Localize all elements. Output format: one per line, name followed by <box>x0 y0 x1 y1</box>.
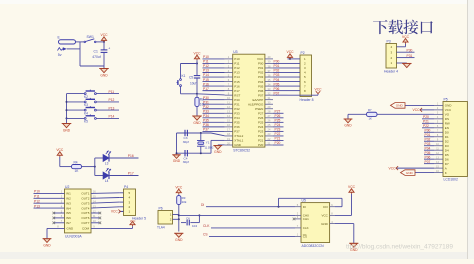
svg-text:RW: RW <box>445 122 450 126</box>
svg-text:P23: P23 <box>275 128 281 132</box>
svg-text:P25: P25 <box>258 121 264 125</box>
svg-text:K4: K4 <box>84 111 88 115</box>
svg-text:SW1: SW1 <box>87 35 94 39</box>
svg-text:P22: P22 <box>423 124 429 128</box>
net label CS wire <box>203 233 295 237</box>
svg-text:P32: P32 <box>203 105 209 109</box>
svg-text:GND: GND <box>344 124 352 128</box>
svg-text:LCD1602: LCD1602 <box>444 178 458 182</box>
wire P07/EA to VCC port <box>288 88 323 96</box>
svg-text:P36: P36 <box>234 125 240 129</box>
svg-text:P30: P30 <box>234 98 240 102</box>
svg-text:470uf: 470uf <box>92 55 101 59</box>
ground GND (MCU pin20) <box>213 145 224 154</box>
resistor R3 10k <box>177 194 187 204</box>
svg-text:P04: P04 <box>274 78 280 82</box>
svg-text:GND: GND <box>100 74 108 78</box>
svg-text:L4: L4 <box>105 179 109 183</box>
svg-text:P01: P01 <box>274 64 280 68</box>
svg-text:P33: P33 <box>234 111 240 115</box>
net label P06 (LCD D6) <box>424 155 434 159</box>
svg-text:P03: P03 <box>425 142 431 146</box>
svg-text:P22: P22 <box>275 132 281 136</box>
svg-text:OUT4: OUT4 <box>81 206 89 210</box>
svg-text:P02: P02 <box>258 71 264 75</box>
svg-text:P11: P11 <box>234 62 239 66</box>
svg-text:GND: GND <box>396 104 404 108</box>
svg-text:CS: CS <box>303 235 307 239</box>
x-mark CH1 <box>293 218 296 221</box>
svg-text:1K: 1K <box>369 117 373 121</box>
svg-text:XTAL1: XTAL1 <box>234 139 243 143</box>
svg-text:P20: P20 <box>423 115 429 119</box>
net label CLK wire <box>203 224 295 228</box>
svg-text:P30: P30 <box>203 96 209 100</box>
net label P12 (U2 IN3) <box>34 199 65 203</box>
svg-text:P15: P15 <box>234 80 240 84</box>
watermark text <box>346 244 453 251</box>
svg-text:VCC: VCC <box>257 57 264 61</box>
svg-text:D7: D7 <box>445 162 449 166</box>
svg-text:VCC: VCC <box>111 210 119 214</box>
svg-text:D5: D5 <box>445 153 449 157</box>
wire DI-DO loop <box>279 198 343 206</box>
svg-text:P21: P21 <box>258 139 264 143</box>
svg-text:D4: D4 <box>445 148 449 152</box>
wire VCC to R4 <box>60 157 72 167</box>
svg-text:OUT1: OUT1 <box>81 192 89 196</box>
svg-text:IN5: IN5 <box>66 211 71 215</box>
svg-text:XTAL2: XTAL2 <box>234 134 243 138</box>
battery E 5v <box>58 36 81 57</box>
svg-text:P4: P4 <box>124 185 128 189</box>
svg-text:P17: P17 <box>234 89 240 93</box>
title text 下载接口 <box>373 20 433 35</box>
svg-text:P34: P34 <box>234 116 240 120</box>
svg-text:P13: P13 <box>234 71 240 75</box>
svg-text:30pf: 30pf <box>183 140 189 144</box>
net label P01 (LCD D1) <box>424 133 434 137</box>
svg-text:104: 104 <box>192 224 197 228</box>
svg-text:P10: P10 <box>34 190 40 194</box>
node RST <box>196 93 198 95</box>
svg-text:P37: P37 <box>234 130 240 134</box>
svg-text:OUT2: OUT2 <box>81 197 89 201</box>
svg-text:P00: P00 <box>258 62 264 66</box>
svg-text:GND: GND <box>406 171 414 175</box>
svg-text:IN6: IN6 <box>66 216 71 220</box>
net label P02 (LCD D2) <box>424 137 434 141</box>
svg-text:P16: P16 <box>234 84 240 88</box>
svg-text:P26: P26 <box>275 114 281 118</box>
svg-text:D1: D1 <box>445 135 449 139</box>
ground GND (power) <box>99 66 109 78</box>
svg-text:RST: RST <box>234 93 240 97</box>
svg-text:L3: L3 <box>105 162 109 166</box>
svg-text:RS: RS <box>445 117 449 121</box>
svg-text:P17: P17 <box>128 172 134 176</box>
wire U2 OUT5-OUT7 stubs <box>91 212 101 224</box>
svg-text:P16: P16 <box>128 154 134 158</box>
connector P3 Header 4 <box>384 40 403 74</box>
wire sensor node <box>178 205 180 232</box>
svg-text:P11: P11 <box>109 90 115 94</box>
svg-text:VCC: VCC <box>56 148 64 152</box>
ground GND (U2 pin8) <box>43 228 65 247</box>
net label P03 (LCD D3) <box>424 142 434 146</box>
svg-text:ADC0832CCN: ADC0832CCN <box>302 244 325 248</box>
power VCC (P3 pin4) <box>402 35 410 47</box>
capacitor C6 104 <box>181 214 200 227</box>
LED L3 <box>95 151 139 166</box>
svg-text:IN4: IN4 <box>66 206 71 210</box>
svg-text:P02: P02 <box>425 137 431 141</box>
svg-text:VCC: VCC <box>445 108 452 112</box>
node VCC junction <box>103 41 105 43</box>
net labels P27-P20 (MCU right) <box>273 109 284 145</box>
capacitor C5 10uf <box>189 64 200 94</box>
svg-text:TLA4: TLA4 <box>157 225 165 229</box>
connector P5 LCD1602 <box>434 98 467 182</box>
svg-text:GND: GND <box>234 143 242 147</box>
svg-text:P21: P21 <box>275 137 281 141</box>
svg-text:P05: P05 <box>274 82 280 86</box>
svg-text:GND: GND <box>175 238 183 242</box>
svg-text:C6: C6 <box>186 217 190 221</box>
svg-text:P31: P31 <box>234 102 240 106</box>
wire button bus <box>66 94 68 120</box>
power VCC (P2 pin1) <box>287 50 295 60</box>
svg-text:IN7: IN7 <box>66 221 71 225</box>
svg-text:GND: GND <box>445 104 453 108</box>
svg-text:P11: P11 <box>203 60 209 64</box>
capacitor C4 30pf <box>183 150 189 164</box>
svg-text:ULN2003A: ULN2003A <box>65 234 82 238</box>
svg-text:P3: P3 <box>387 40 391 44</box>
pushbutton K2 <box>67 90 120 99</box>
svg-text:D3: D3 <box>445 144 449 148</box>
net label P11 (U2 IN2) <box>34 195 65 199</box>
svg-text:DI: DI <box>201 203 204 207</box>
svg-text:C5: C5 <box>189 76 193 80</box>
svg-text:P00: P00 <box>425 128 431 132</box>
net label DI wire <box>201 203 295 208</box>
svg-text:P07: P07 <box>274 91 280 95</box>
svg-text:U3: U3 <box>233 50 237 54</box>
ground GND (LCD pin1) <box>391 103 435 109</box>
svg-text:OUT3: OUT3 <box>81 201 89 205</box>
IC U5 ADC0832 <box>295 199 335 248</box>
connector P4 Header 5 <box>119 185 146 221</box>
wire U2 OUT1-OUT4 to P4 <box>91 193 119 208</box>
svg-text:P31: P31 <box>203 100 209 104</box>
net labels P00-P07 (MCU right) <box>273 60 288 96</box>
power VCC (U2 COM pin9) <box>91 219 135 228</box>
svg-text:VCC: VCC <box>402 35 410 39</box>
svg-text:P22: P22 <box>258 134 264 138</box>
pushbutton K5 <box>67 114 120 123</box>
svg-text:VCC: VCC <box>413 108 421 112</box>
svg-text:VCC: VCC <box>101 33 109 37</box>
svg-text:P21: P21 <box>423 120 429 124</box>
power VCC (ADC) <box>335 185 356 215</box>
svg-text:OUT7: OUT7 <box>81 221 89 225</box>
pushbutton K1 (reset) <box>177 74 186 86</box>
svg-text:ttps://blog.csdn.net/weixin_47: ttps://blog.csdn.net/weixin_47927189 <box>346 244 453 251</box>
net label P31 (P3 pin2) <box>403 54 415 58</box>
svg-text:P03: P03 <box>274 73 280 77</box>
wire XTAL1 riser <box>201 140 225 153</box>
svg-text:GND: GND <box>193 121 201 125</box>
ground GND (P3 pin1) <box>402 63 412 68</box>
svg-text:P12: P12 <box>34 199 40 203</box>
svg-text:P05: P05 <box>258 84 264 88</box>
svg-text:P14: P14 <box>234 75 240 79</box>
svg-text:GND: GND <box>214 150 222 154</box>
svg-text:10uf: 10uf <box>190 81 196 85</box>
svg-text:P6: P6 <box>159 207 163 211</box>
svg-text:P07: P07 <box>425 160 431 164</box>
svg-text:Header 8: Header 8 <box>300 98 314 102</box>
svg-text:GND: GND <box>321 222 329 226</box>
wire R4 to LED split <box>82 158 96 176</box>
svg-text:P35: P35 <box>203 119 209 123</box>
svg-text:P37: P37 <box>203 128 209 132</box>
svg-text:STC89C52: STC89C52 <box>233 148 250 152</box>
svg-text:P30: P30 <box>407 48 413 52</box>
svg-text:P33: P33 <box>203 109 209 113</box>
wire XTAL2 rail <box>177 133 225 136</box>
power VCC (reset) <box>194 52 202 61</box>
svg-text:P27: P27 <box>275 109 281 113</box>
svg-text:P10: P10 <box>234 57 240 61</box>
svg-text:VCC: VCC <box>315 88 323 92</box>
net labels P30-P37 (MCU left) <box>203 96 225 132</box>
svg-text:IN2: IN2 <box>66 197 71 201</box>
ground GND (ADC) <box>335 224 358 252</box>
svg-text:VCC: VCC <box>175 185 183 189</box>
svg-text:P07: P07 <box>258 93 264 97</box>
ground GND (reset R2) <box>192 107 202 126</box>
svg-text:P24: P24 <box>258 125 264 129</box>
svg-text:D2: D2 <box>445 139 449 143</box>
wire crystal left rail <box>176 133 201 154</box>
connector P6 sensor <box>157 207 179 230</box>
resistor R7 1K (VO) <box>348 108 434 121</box>
wire battery to switch <box>76 41 85 43</box>
svg-text:P12: P12 <box>109 98 115 102</box>
power VCC (P4 pin1) <box>111 210 124 214</box>
svg-text:K: K <box>445 171 447 175</box>
svg-text:Y1: Y1 <box>206 140 210 144</box>
svg-text:11.0592: 11.0592 <box>205 146 214 149</box>
svg-text:K3: K3 <box>84 103 88 107</box>
svg-text:CH1: CH1 <box>303 217 309 221</box>
svg-text:P10: P10 <box>203 55 209 59</box>
capacitor C3 30pf <box>183 130 189 144</box>
pushbutton K4 <box>67 106 120 115</box>
svg-text:P17: P17 <box>203 87 209 91</box>
power VCC (LCD A) <box>389 166 434 170</box>
svg-text:K5: K5 <box>84 120 88 124</box>
svg-text:OUT6: OUT6 <box>81 216 89 220</box>
wire RST to MCU <box>197 94 225 95</box>
svg-text:P25: P25 <box>275 119 281 123</box>
svg-text:Header 4: Header 4 <box>384 69 398 73</box>
svg-text:P01: P01 <box>425 133 431 137</box>
ground GND (LCD K) <box>401 170 435 176</box>
wire reset loop <box>181 60 199 94</box>
svg-text:DI: DI <box>303 205 306 209</box>
ground GND (button bus) <box>62 118 72 132</box>
svg-text:VO: VO <box>445 113 450 117</box>
svg-text:P24: P24 <box>275 123 281 127</box>
resistor R2 10k <box>195 94 205 107</box>
net label P10 (U2 IN1) <box>34 190 65 194</box>
svg-text:P04: P04 <box>258 80 264 84</box>
svg-text:P11: P11 <box>34 195 40 199</box>
svg-text:P13: P13 <box>34 204 40 208</box>
svg-text:P06: P06 <box>258 89 264 93</box>
svg-text:P13: P13 <box>109 106 115 110</box>
wire U2 IN5-IN7 stubs <box>53 212 65 224</box>
svg-text:P12: P12 <box>203 64 209 68</box>
power VCC (LCD pin2) <box>413 108 434 112</box>
LED L4 <box>95 168 139 183</box>
svg-text:P35: P35 <box>234 121 240 125</box>
svg-text:PSEN: PSEN <box>255 107 263 111</box>
svg-text:A: A <box>445 166 447 170</box>
svg-text:10k: 10k <box>182 200 187 204</box>
svg-text:P06: P06 <box>274 87 280 91</box>
net label P07 (LCD D7) <box>424 160 434 164</box>
wire CH0 <box>179 214 295 216</box>
svg-text:30pf: 30pf <box>183 160 189 164</box>
net label P21 (LCD RW) <box>422 120 434 124</box>
svg-text:D6: D6 <box>445 157 449 161</box>
svg-text:D0: D0 <box>445 130 449 134</box>
svg-text:P14: P14 <box>203 73 209 77</box>
svg-text:GND: GND <box>63 129 71 133</box>
svg-text:P00: P00 <box>274 60 280 64</box>
svg-text:COM: COM <box>82 227 90 231</box>
svg-text:U2: U2 <box>65 185 69 189</box>
net label P30 (P3 pin3) <box>403 48 415 52</box>
svg-text:P2: P2 <box>301 51 305 55</box>
power VCC (LED) <box>56 148 64 157</box>
svg-text:P16: P16 <box>203 82 209 86</box>
capacitor C1 470uf <box>92 42 110 66</box>
svg-text:OUT5: OUT5 <box>81 211 89 215</box>
svg-text:ALE/PROG: ALE/PROG <box>248 102 264 106</box>
svg-text:+: + <box>108 46 110 50</box>
net label P05 (LCD D5) <box>424 151 434 155</box>
ground GND (LCD VO) <box>344 114 353 127</box>
svg-text:IN1: IN1 <box>66 192 71 196</box>
IC U2 ULN2003A <box>57 185 96 238</box>
svg-text:EN: EN <box>445 126 449 130</box>
svg-text:DO: DO <box>323 205 328 209</box>
net label P22 (LCD EN) <box>422 124 434 128</box>
svg-text:5v: 5v <box>58 53 62 57</box>
svg-text:Header 5: Header 5 <box>132 217 146 221</box>
resistor R4 1K <box>72 161 82 173</box>
svg-text:GND: GND <box>43 243 51 247</box>
svg-text:R7: R7 <box>368 108 372 112</box>
crystal Y1 <box>197 132 214 154</box>
svg-text:P12: P12 <box>234 66 240 70</box>
wire bottom rail power <box>80 65 104 67</box>
svg-text:P34: P34 <box>203 114 209 118</box>
svg-text:P05: P05 <box>425 151 431 155</box>
ground GND (crystal) <box>172 155 181 163</box>
svg-text:R3: R3 <box>182 196 186 200</box>
pushbutton K3 <box>67 98 120 107</box>
svg-text:P23: P23 <box>258 130 264 134</box>
svg-text:P36: P36 <box>203 123 209 127</box>
svg-text:P32: P32 <box>234 107 240 111</box>
wire battery branch vertical <box>79 42 81 66</box>
svg-text:P13: P13 <box>203 69 209 73</box>
connector P2 Header 8 <box>288 51 314 102</box>
svg-text:P5: P5 <box>444 98 448 102</box>
net label P20 (LCD RS) <box>422 115 434 119</box>
svg-text:K2: K2 <box>84 95 88 99</box>
svg-text:GND: GND <box>173 159 181 163</box>
svg-text:P20: P20 <box>258 143 264 147</box>
svg-text:U5: U5 <box>302 199 306 203</box>
svg-text:GND: GND <box>67 227 75 231</box>
ground GND (sensor) <box>174 233 183 242</box>
svg-text:K1: K1 <box>182 74 186 78</box>
net label P00 (LCD D0) <box>424 128 434 132</box>
net labels P10-P17 (MCU left) <box>203 55 225 91</box>
svg-text:C1: C1 <box>94 50 98 54</box>
IC U3 STC89C52 <box>225 50 273 152</box>
svg-text:IN3: IN3 <box>66 201 71 205</box>
svg-text:EA/VPP: EA/VPP <box>252 98 263 102</box>
svg-text:P15: P15 <box>203 78 209 82</box>
svg-text:VCC: VCC <box>321 214 328 218</box>
svg-text:P04: P04 <box>425 146 431 150</box>
svg-text:P27: P27 <box>258 111 264 115</box>
svg-text:P01: P01 <box>258 66 264 70</box>
svg-text:P03: P03 <box>258 75 264 79</box>
svg-text:P02: P02 <box>274 69 280 73</box>
svg-text:P31: P31 <box>407 54 413 58</box>
net label P13 (U2 IN4) <box>34 204 65 208</box>
net label P04 (LCD D4) <box>424 146 434 150</box>
power VCC (sensor) <box>175 185 183 194</box>
svg-text:CS: CS <box>203 233 208 237</box>
svg-text:P26: P26 <box>258 116 264 120</box>
svg-text:VCC: VCC <box>389 166 397 170</box>
svg-text:CLK: CLK <box>303 226 309 230</box>
power VCC (switch output) <box>101 33 109 42</box>
svg-text:P14: P14 <box>109 115 115 119</box>
svg-text:VCC: VCC <box>194 52 202 56</box>
svg-text:P06: P06 <box>425 155 431 159</box>
svg-text:R4: R4 <box>74 161 78 165</box>
svg-text:P20: P20 <box>275 141 281 145</box>
svg-text:VCC: VCC <box>348 185 356 189</box>
switch SW1 <box>84 35 104 43</box>
svg-text:CLK: CLK <box>203 224 210 228</box>
svg-text:VCC: VCC <box>287 50 295 54</box>
